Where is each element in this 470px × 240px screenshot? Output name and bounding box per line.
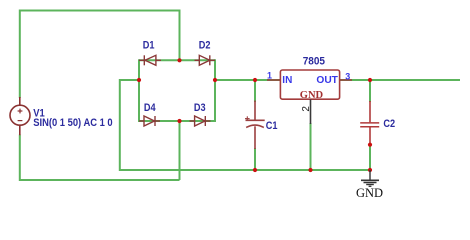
- capacitor C2: [360, 101, 379, 145]
- svg-text:D1: D1: [143, 40, 155, 52]
- svg-text:2: 2: [301, 106, 312, 112]
- svg-text:GND: GND: [300, 90, 324, 101]
- pin 2 stub (GND pin): [310, 99, 312, 124]
- diode D1: [139, 55, 161, 65]
- junction dot bridge top: [177, 58, 181, 62]
- junction dot ground bus: [368, 168, 372, 172]
- wire C2 top branch: [369, 80, 371, 102]
- pin 1 stub: [267, 79, 280, 81]
- capacitor C1: [245, 101, 265, 150]
- wire C1 top branch: [254, 80, 256, 102]
- diode D3: [190, 116, 211, 126]
- wire bridge right vertical: [214, 59, 216, 122]
- wire bridge left node to ground bus: [120, 80, 370, 170]
- svg-text:IN: IN: [282, 75, 292, 86]
- wire C2 bottom branch: [369, 145, 371, 170]
- wire regulator OUT to output: [340, 79, 460, 81]
- diode D2: [195, 55, 216, 65]
- wire bridge top side: [139, 59, 215, 61]
- junction dot bridge bottom: [177, 119, 181, 123]
- junction dot C2 top: [368, 78, 372, 82]
- svg-text:1: 1: [267, 71, 272, 81]
- svg-text:3: 3: [345, 72, 350, 82]
- wire bridge bottom-mid vertical: [179, 121, 181, 180]
- wire bridge bottom side: [139, 120, 215, 122]
- ground symbol: [361, 170, 379, 186]
- junction dot bridge left: [137, 78, 141, 82]
- wire bridge right node to regulator IN: [215, 79, 280, 81]
- wire regulator GND pin to bus: [310, 123, 312, 170]
- junction dot GND pin bus: [308, 168, 312, 172]
- junction dot bridge right: [213, 78, 217, 82]
- junction dot C1 top: [253, 78, 257, 82]
- svg-text:7805: 7805: [303, 56, 326, 67]
- svg-text:D2: D2: [199, 40, 211, 52]
- svg-text:SIN(0 1 50) AC 1 0: SIN(0 1 50) AC 1 0: [33, 118, 113, 130]
- svg-text:D4: D4: [144, 102, 156, 114]
- pin 3 stub: [340, 79, 352, 81]
- diode D4: [139, 116, 160, 126]
- svg-text:D3: D3: [194, 102, 206, 114]
- svg-text:OUT: OUT: [316, 75, 338, 86]
- svg-text:C2: C2: [383, 118, 395, 130]
- wire V1 top to bridge top node: [20, 11, 180, 99]
- wire V1 bottom to bridge bottom node: [20, 135, 180, 181]
- junction dot C1 bus: [253, 168, 257, 172]
- wire C1 bottom branch: [254, 148, 256, 170]
- svg-text:C1: C1: [266, 120, 278, 132]
- voltage source V1: [10, 97, 30, 135]
- regulator U1 7805 box: [280, 70, 339, 99]
- junction dot C2 bottom pin: [368, 143, 372, 147]
- svg-text:GND: GND: [356, 186, 383, 200]
- wire bridge left vertical: [138, 59, 140, 122]
